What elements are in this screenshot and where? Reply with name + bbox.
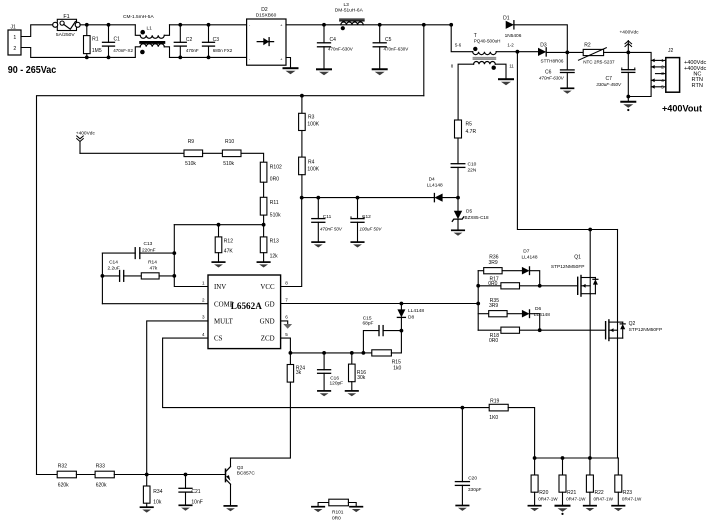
svg-text:10k: 10k [153,499,162,505]
node drain bus from transformer [516,50,520,54]
svg-text:12k: 12k [270,254,279,260]
svg-text:470nF 50V: 470nF 50V [320,227,343,232]
resistor R17 [478,285,501,287]
svg-text:C14: C14 [109,260,118,266]
resistor R12 [218,225,220,237]
svg-text:0R47-1W: 0R47-1W [622,497,642,502]
wire bridge output top rail [286,24,451,26]
wire R33 to MULT node [114,474,146,476]
svg-text:5: 5 [661,84,664,90]
svg-text:C12: C12 [362,214,371,220]
svg-text:Q1: Q1 [574,255,581,261]
svg-text:1N5406: 1N5406 [505,33,522,39]
svg-text:680n FX2: 680n FX2 [213,48,233,53]
svg-text:30k: 30k [357,375,366,381]
svg-text:1: 1 [661,58,664,64]
J2 pin 1 [651,59,666,61]
svg-text:D15XB60: D15XB60 [256,13,277,19]
resistor R4 [299,157,306,175]
wire feed line to left rail [37,96,424,475]
svg-text:0R0: 0R0 [489,338,498,344]
svg-text:R33: R33 [96,463,105,469]
wire L1 to bridge [170,24,247,26]
wire VCC to supply rail [281,198,302,287]
svg-text:0R47-1W: 0R47-1W [594,497,614,502]
svg-text:D2: D2 [261,7,268,13]
svg-text:R1: R1 [92,37,99,43]
svg-text:D8: D8 [408,314,414,320]
svg-text:R14: R14 [148,260,157,266]
svg-text:11: 11 [509,64,514,69]
wire CS to sense line [163,338,489,408]
svg-text:470nF-630V: 470nF-630V [539,76,565,81]
capacitor C3 [208,25,210,43]
wire Q1 source to sense rail [589,294,591,458]
svg-text:330uF-450V: 330uF-450V [596,82,622,87]
svg-text:1: 1 [13,35,16,41]
svg-text:R101: R101 [332,509,344,515]
diode D6 [507,313,522,315]
svg-text:D5: D5 [466,209,472,215]
ground D5 [452,229,464,231]
wire R9 to R10 [203,152,223,154]
svg-text:470nF: 470nF [186,48,199,53]
wire Q1 drain branch [589,230,591,278]
ground R16 [346,390,358,392]
svg-text:L3: L3 [344,2,350,8]
wire ZCD pin [281,338,291,353]
svg-text:D4: D4 [429,176,435,182]
capacitor C20 [461,406,465,410]
diode D7 [502,270,522,272]
J2 pin 3 [656,73,666,75]
wire bridge negative to ground [286,58,291,69]
wire INV vertical [174,225,208,287]
wire MULT row from left rail [37,474,58,476]
ground R22 [584,505,596,507]
svg-text:GND: GND [260,319,275,326]
wire COMP branch [101,253,103,304]
svg-text:510k: 510k [185,161,196,167]
svg-text:620k: 620k [58,483,69,489]
svg-text:2: 2 [13,46,16,52]
svg-text:620k: 620k [96,483,107,489]
diode D8 [400,304,402,310]
resistor R3 [300,94,304,98]
svg-text:F1: F1 [63,14,69,20]
wire GD rail [281,303,479,305]
resistor R24 [289,353,291,365]
wire R32 to R33 [76,474,95,476]
svg-text:2.2uF: 2.2uF [108,265,120,271]
svg-text:3: 3 [661,71,664,77]
capacitor C11 [316,196,320,200]
ground C5 [373,68,387,70]
svg-text:R34: R34 [153,489,162,495]
svg-text:3R9: 3R9 [489,303,498,309]
ground bridge [284,67,298,69]
capacitor C21 [185,475,187,489]
ground Q3 [224,505,236,507]
wire ZCD row [290,352,363,354]
svg-text:6: 6 [285,315,288,320]
svg-text:LL4148: LL4148 [408,308,424,314]
capacitor C15 [400,329,404,333]
wire Q2 drain branch [617,230,619,323]
svg-text:0R0: 0R0 [270,176,279,182]
resistor R21 [562,458,564,475]
diode D3 [517,51,538,53]
ground C6 [561,87,573,89]
svg-text:1-2: 1-2 [507,42,514,47]
svg-text:510k: 510k [270,212,281,218]
svg-text:R23: R23 [623,490,632,496]
svg-text:R11: R11 [270,200,279,206]
svg-text:1: 1 [202,280,205,285]
resistor R33 [95,471,114,478]
svg-text:3: 3 [202,315,205,320]
fuse F1 [57,19,76,30]
ground C21 [179,504,191,506]
svg-text:C20: C20 [468,475,477,481]
svg-text:RTN: RTN [692,83,703,89]
transformer T core [473,58,497,60]
NTC resistor R2 [567,51,583,53]
svg-text:R2: R2 [584,42,591,48]
capacitor C2 [179,25,181,43]
svg-text:LL4148: LL4148 [522,255,538,261]
wire drain bus [517,52,617,230]
svg-text:J1: J1 [11,24,17,30]
wire R11 to node [263,215,265,237]
svg-text:C21: C21 [191,489,200,495]
resistor R11 [260,197,267,215]
svg-text:VCC: VCC [260,284,275,291]
svg-text:DM-51uH-6A: DM-51uH-6A [335,8,364,14]
wire to Q1 gate [520,285,578,287]
svg-text:R12: R12 [224,238,233,244]
svg-text:C15: C15 [363,315,372,321]
svg-text:PQ40-500uH: PQ40-500uH [474,38,501,43]
resistor R10 [222,150,241,157]
svg-text:LL4148: LL4148 [427,182,443,188]
resistor R15 [363,352,371,354]
svg-text:+400Vdc: +400Vdc [619,30,639,36]
wire R102 to R11 [263,182,265,197]
capacitor C16 [322,351,326,355]
svg-text:C2: C2 [186,37,193,43]
svg-text:0R47-1W: 0R47-1W [566,497,586,502]
zener diode D5 [457,198,459,211]
svg-text:CS: CS [214,336,223,343]
svg-text:L1: L1 [147,26,153,32]
wire gate drive bus [477,271,479,331]
svg-text:470nF-X2: 470nF-X2 [113,48,133,53]
svg-text:22N: 22N [468,167,477,173]
wire D4 to aux node [443,197,458,199]
svg-text:68pF: 68pF [363,320,374,326]
ground R23 [612,505,624,507]
wire R19 to sense rail [508,408,534,458]
svg-text:0R0: 0R0 [332,515,341,521]
resistor R36 [478,270,484,272]
svg-text:5-6: 5-6 [455,42,462,47]
svg-text:4: 4 [661,78,664,84]
svg-text:BZX85-C18: BZX85-C18 [465,215,489,220]
svg-text:GD: GD [265,301,275,308]
ground C7 [627,97,629,102]
svg-text:J2: J2 [668,48,674,54]
wire output loop to J2 [628,52,651,96]
svg-text:C10: C10 [468,162,477,168]
svg-text:D6: D6 [535,306,541,312]
resistor R32 [57,471,76,478]
svg-text:C11: C11 [323,214,332,220]
resistor R5 [455,120,462,138]
svg-text:STTH8R06: STTH8R06 [541,58,564,63]
wire sense rail [535,457,619,459]
wire Q2 source to sense rail [617,338,619,458]
svg-text:2: 2 [661,65,664,71]
ground R21 [556,505,570,507]
ground C20 [456,505,468,507]
svg-text:+400Vout: +400Vout [662,103,702,113]
svg-text:4: 4 [202,332,205,337]
svg-text:C1: C1 [114,37,121,43]
svg-text:BC857C: BC857C [237,470,256,476]
svg-text:1k0: 1k0 [393,366,401,372]
svg-text:D7: D7 [523,248,529,254]
svg-text:R102: R102 [270,165,282,171]
svg-text:10nF: 10nF [191,499,202,505]
resistor R18 [478,329,501,331]
wire to Q2 gate [520,329,606,331]
svg-text:0R0: 0R0 [488,281,497,287]
op-amp controller U1 L6562A [208,275,281,349]
J2 pin 5 [651,86,666,88]
capacitor C12 [356,196,360,200]
ground C16 [318,390,330,392]
svg-text:90 - 265Vac: 90 - 265Vac [8,65,57,76]
wire Q3 emitter to ground [230,484,232,506]
svg-text:C3: C3 [213,37,220,43]
svg-text:47K: 47K [224,248,234,254]
svg-text:7: 7 [285,298,288,303]
ground C4 [317,68,331,70]
wire fuse to bridge top rail [80,24,135,26]
capacitor C7 [627,52,629,69]
svg-text:47k: 47k [150,265,158,271]
resistor R16 [350,351,354,355]
svg-text:C6: C6 [545,70,552,76]
capacitor C1 [108,25,110,43]
resistor R35 [478,313,488,315]
wire VCC rail [302,197,434,199]
wire node to R12 and INV line [174,224,263,226]
wire GND pin [281,321,288,324]
svg-text:C7: C7 [606,76,613,82]
ground R101 right [350,506,362,508]
ground U1 GND pin [283,324,292,329]
svg-text:STP12NM50FP: STP12NM50FP [551,264,585,270]
wire node to C21 [147,474,186,476]
resistor R14 [141,273,159,279]
wire D1 to output node [514,25,567,53]
capacitor C6 [566,52,568,70]
resistor R1 [86,25,88,36]
svg-text:CM-1.5mH-5A: CM-1.5mH-5A [123,14,154,20]
svg-text:R4: R4 [308,159,315,165]
wire J1 pin1 to fuse [21,25,53,37]
wire MULT to divider node [147,321,208,475]
svg-text:R20: R20 [539,490,548,496]
svg-text:330pF: 330pF [468,487,482,493]
svg-text:Q3: Q3 [237,465,244,471]
capacitor C10 [451,163,465,165]
svg-text:0R47-1W: 0R47-1W [538,497,558,502]
Q1 body diode [590,277,595,279]
svg-text:8: 8 [285,280,288,285]
wire DC bus tap down to feed line [423,25,425,96]
svg-text:+400Vdc: +400Vdc [76,130,96,136]
svg-text:L6562A: L6562A [231,301,262,311]
svg-text:R13: R13 [270,238,279,244]
resistor R20 [534,458,536,475]
svg-text:470nF-630V: 470nF-630V [384,46,409,51]
svg-text:100K: 100K [307,166,319,172]
svg-text:1K0: 1K0 [489,415,498,421]
Q2 body diode [618,321,623,323]
wire COMP to IC [102,303,208,305]
svg-text:R10: R10 [225,139,234,145]
J2 pin 2 [651,66,666,68]
svg-text:STP12NM50FP: STP12NM50FP [629,327,663,333]
ground R34 [141,506,153,508]
svg-text:120pF: 120pF [330,381,344,387]
resistor R19 [489,404,508,411]
svg-text:C4: C4 [330,37,337,43]
svg-text:510k: 510k [223,161,234,167]
svg-text:D1: D1 [503,15,510,21]
resistor R9 [184,150,203,157]
svg-text:1M5: 1M5 [92,48,102,54]
svg-text:R22: R22 [595,490,604,496]
svg-text:3R9: 3R9 [489,260,498,266]
connector J2 [666,58,680,93]
ground C11 [312,241,324,243]
wire R10 to R102 [241,153,263,162]
resistor R13 [260,237,267,253]
svg-text:470nF-630V: 470nF-630V [328,46,353,51]
wire D3 to node [546,51,567,53]
svg-text:220nF: 220nF [142,247,156,253]
svg-text:LL4148: LL4148 [534,312,550,318]
svg-text:R5: R5 [466,122,473,128]
wire bottom rail L1 to bridge [170,56,247,58]
capacitor C4 [323,25,325,43]
svg-text:NTC 2R5-S237: NTC 2R5-S237 [583,59,615,64]
svg-text:100K: 100K [307,122,319,128]
capacitor C5 [379,25,381,43]
svg-text:C16: C16 [330,375,339,381]
resistor R22 [589,458,591,475]
diode D1 [449,23,453,27]
connector J1 [8,30,21,55]
wire node to Q3 base [186,474,226,476]
ground R12 [212,261,224,263]
svg-text:5: 5 [285,332,288,337]
svg-text:C5: C5 [385,37,392,43]
resistor R102 [260,162,267,182]
ground transformer aux [499,78,513,80]
svg-text:INV: INV [214,284,226,291]
resistor R23 [617,458,619,475]
svg-text:R32: R32 [58,463,67,469]
J2 pin 4 [651,79,666,81]
ground R20 [528,505,540,507]
ground C12 [351,241,363,243]
svg-text:C13: C13 [144,241,153,247]
svg-text:2: 2 [202,298,205,303]
svg-text:100uF 50V: 100uF 50V [360,227,383,232]
wire R24 to Q3 collector [231,382,291,466]
svg-text:Q2: Q2 [629,321,636,327]
svg-text:MULT: MULT [214,319,234,326]
svg-text:R15: R15 [392,359,401,365]
ground R13 [257,261,269,263]
wire +400Vdc to R9 [80,152,184,154]
resistor R34 [146,475,148,487]
wire R5 to C10 [457,138,459,164]
svg-text:5A/250V: 5A/250V [56,32,76,38]
svg-text:R21: R21 [567,490,576,496]
svg-text:3k: 3k [296,370,302,376]
resistor R101 [312,506,324,508]
bridge rectifier D2 [247,19,286,65]
wire J1 pin2 bottom rail [21,48,135,58]
svg-text:COMP: COMP [214,301,234,308]
svg-text:R3: R3 [308,115,315,121]
svg-text:ZCD: ZCD [261,336,275,343]
svg-text:R19: R19 [490,398,499,404]
svg-text:4.7R: 4.7R [466,129,477,135]
svg-text:R9: R9 [188,139,195,145]
